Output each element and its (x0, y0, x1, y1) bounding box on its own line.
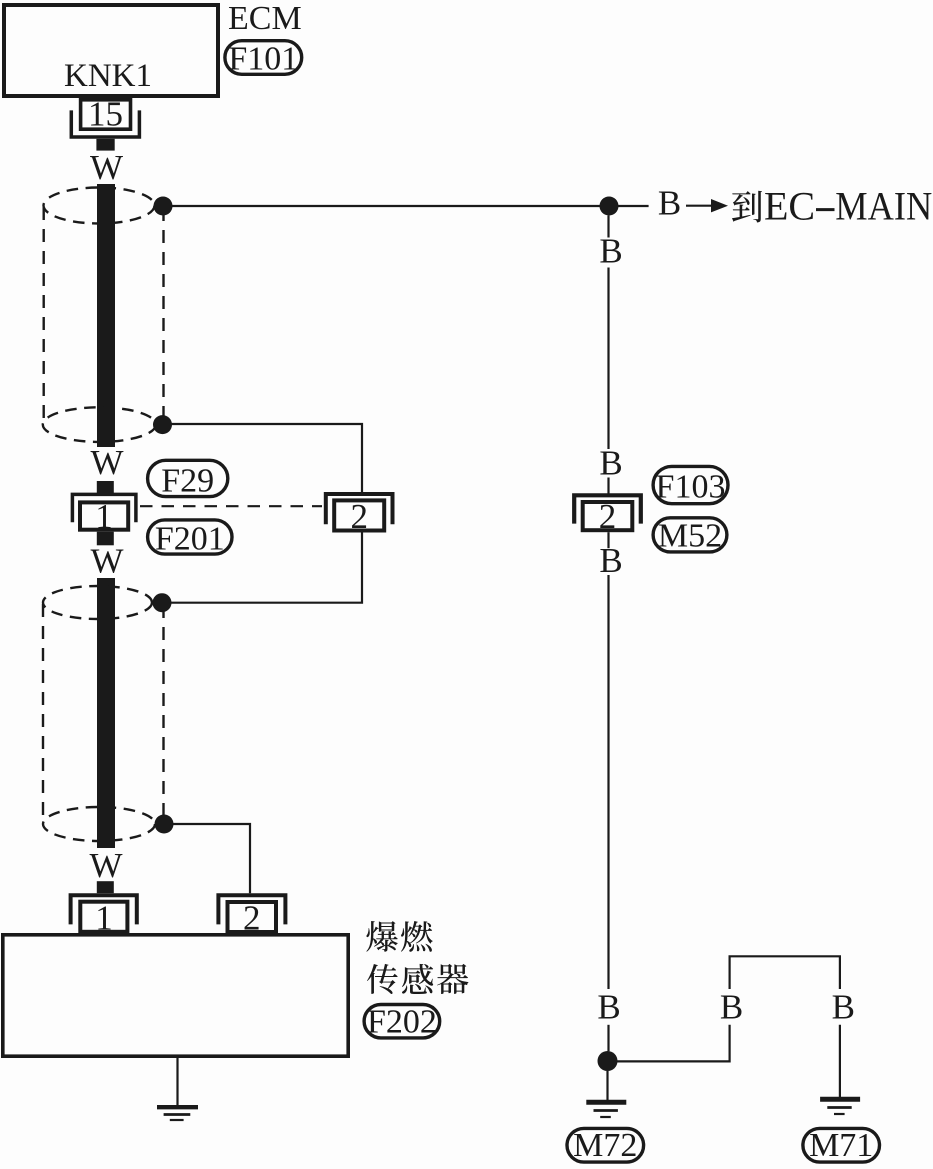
wire B to arrow (686, 205, 712, 207)
sensor pin 1 box (80, 902, 127, 932)
shield cylinder 1 right dashed edge (162, 208, 164, 422)
svg-text:B: B (720, 988, 743, 1027)
svg-text:B: B (599, 541, 622, 580)
sensor case ground wire (176, 1058, 178, 1105)
inline connector dashed link (140, 505, 322, 507)
wire connector 2 to shield 2 (162, 533, 362, 603)
svg-text:2: 2 (350, 497, 368, 536)
connector oval F202 (364, 1005, 440, 1038)
wire W stub above connector 1 (97, 481, 114, 494)
label oval F29 (148, 460, 228, 496)
svg-text:M72: M72 (573, 1127, 637, 1164)
svg-text:M52: M52 (658, 518, 722, 555)
connector F103/M52 pin 2 box (583, 502, 633, 530)
svg-text:B: B (832, 988, 855, 1027)
svg-text:F101: F101 (228, 41, 298, 78)
svg-text:W: W (90, 148, 123, 187)
ground symbol (sensor case) (157, 1105, 198, 1109)
shield junction node (bottom of cylinder 2) (155, 815, 174, 834)
svg-text:KNK1: KNK1 (64, 58, 152, 94)
shield cylinder 2 top ellipse (43, 586, 152, 619)
connector oval M52 (653, 518, 727, 552)
wire bridge between ground branches (730, 956, 840, 989)
svg-text:15: 15 (88, 95, 123, 134)
pin 15 box (81, 100, 131, 129)
thick wire W (ECM to splice F29) (97, 184, 115, 447)
sensor name 传感器 (367, 964, 398, 994)
sensor pin 2 box (228, 902, 277, 932)
svg-text:EC: EC (764, 184, 815, 229)
wire pin 2 to B label (607, 532, 609, 548)
shield junction node (top) (154, 197, 173, 216)
svg-text:W: W (90, 443, 123, 482)
ground splice node (598, 1051, 618, 1071)
wire B vertical (F103 to ground splice) (607, 575, 609, 989)
ground symbol M71 (820, 1097, 860, 1102)
connector 1 pin box (80, 502, 128, 529)
wire shield drain to connector 2 (F29/F201) (163, 424, 363, 494)
svg-text:F29: F29 (161, 463, 214, 500)
ground oval M71 (803, 1128, 880, 1162)
label oval F201 (148, 520, 232, 554)
connector F103/M52 bracket (574, 495, 641, 523)
svg-text:ECM: ECM (228, 0, 302, 37)
svg-text:1: 1 (95, 899, 113, 938)
svg-text:F103: F103 (656, 469, 726, 506)
connector oval F101 (225, 41, 302, 75)
svg-text:W: W (89, 846, 122, 885)
svg-text:B: B (599, 443, 622, 482)
wire W stub below pin 15 (96, 139, 114, 151)
svg-text:W: W (90, 542, 123, 581)
svg-text:2: 2 (243, 899, 261, 938)
wire splice to M72 ground (606, 1071, 608, 1100)
shield junction node (top of cylinder 2) (153, 593, 172, 612)
shield cylinder 1 bottom ellipse (43, 407, 156, 442)
wire right branch to M71 ground (839, 1025, 841, 1097)
knock sensor box (3, 935, 348, 1056)
connector 2 bracket (F29/F201) (326, 494, 393, 524)
svg-text:MAIN: MAIN (835, 184, 932, 229)
shield cylinder 2 bottom ellipse (43, 807, 155, 841)
ground symbol M72 (586, 1100, 626, 1105)
shield cylinder 1 top ellipse (44, 188, 155, 224)
shield cylinder 2 left dashed edge (42, 604, 44, 822)
thick wire W (connector 1 to sensor) (97, 578, 115, 848)
shield splice node (bottom of cylinder 1) (153, 415, 172, 434)
destination label 到EC—MAIN (732, 191, 762, 223)
svg-text:F201: F201 (155, 521, 225, 558)
ground oval M72 (567, 1128, 644, 1162)
svg-text:B: B (658, 184, 681, 223)
svg-text:M71: M71 (809, 1127, 873, 1164)
svg-text:B: B (597, 988, 620, 1027)
svg-text:1: 1 (95, 497, 113, 536)
wire B vertical (node to F103) (607, 216, 609, 238)
wire W stub below connector 1 (97, 532, 114, 546)
wire W stub above sensor pin 1 (97, 881, 114, 893)
sensor name 爆燃 (366, 921, 398, 952)
wire shield to EC-MAIN (horizontal) (163, 205, 649, 207)
svg-text:F202: F202 (367, 1004, 437, 1041)
wire middle branch to splice (608, 1025, 730, 1062)
ECM box U1 (4, 5, 218, 96)
svg-text:2: 2 (599, 497, 617, 536)
shield cylinder 1 left dashed edge (43, 207, 45, 423)
arrow head (711, 199, 728, 212)
sensor connector 1 bracket (71, 895, 137, 924)
connector oval F103 (653, 466, 728, 503)
shield cylinder 2 right dashed edge (162, 605, 164, 820)
connector 2 pin box (334, 500, 384, 530)
connector bracket (pin 15) (71, 110, 139, 137)
junction node B main (600, 197, 619, 216)
svg-text:B: B (599, 232, 622, 271)
connector 1 bracket (F29/F201) (72, 494, 135, 522)
sensor connector 2 bracket (218, 895, 285, 924)
wire shield 2 drain to sensor pin 2 (164, 824, 250, 893)
